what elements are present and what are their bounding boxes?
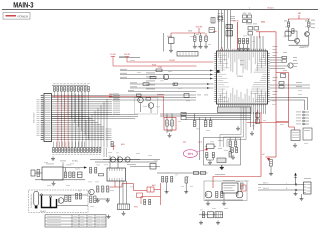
arrow labels (197, 94, 201, 97)
svg-text:D3.3V: D3.3V (233, 20, 239, 23)
wire arrows mid-band (207, 70, 213, 90)
IC U301 inner labels (45, 95, 51, 140)
label (60, 160, 66, 163)
bus fanout staircase (86, 99, 107, 148)
svg-text:TO MAIN: TO MAIN (300, 46, 309, 49)
ferrite bead FB602 (181, 116, 186, 119)
IC U601 left pin labels (218, 53, 230, 102)
caps outside right (90, 196, 111, 203)
ground (53, 181, 55, 183)
red branch (276, 73, 289, 122)
caps row mid (97, 186, 109, 192)
bus box below IC (218, 107, 251, 113)
red mark (261, 21, 265, 24)
svg-text:P5V: P5V (134, 206, 138, 209)
ground (123, 211, 125, 213)
red power horizontal (52, 95, 164, 97)
electrolytic cap CE802 (236, 191, 243, 198)
wires right pins to parts (270, 57, 282, 59)
test point TP1 (183, 149, 207, 158)
zener D401 (78, 172, 83, 178)
IC U601 top pins (219, 49, 266, 51)
caps left of U501 (90, 168, 97, 174)
red wire (111, 57, 115, 67)
IC U301 left pin labels (37, 99, 40, 135)
red rail 2 (113, 65, 197, 67)
resistor R901 (284, 19, 290, 27)
capacitor C801 (270, 160, 273, 172)
svg-text:MAIN-3: MAIN-3 (13, 0, 33, 9)
red long vertical right (275, 32, 277, 157)
component labels (218, 139, 223, 142)
wire +B rail horizontal (288, 18, 310, 20)
resistor R410 (156, 69, 162, 72)
power wire red (237, 22, 239, 50)
svg-text:RXD: RXD (152, 64, 157, 67)
resistor R903 (285, 30, 291, 36)
ground (221, 165, 223, 167)
component cluster K1 (248, 27, 259, 36)
wire to audio path (130, 166, 160, 168)
ground (223, 201, 225, 203)
wire arrow top (63, 166, 87, 168)
svg-text:RL401: RL401 (40, 210, 47, 213)
resistor array RA912 (226, 31, 233, 37)
black vertical grid wires (72, 93, 83, 148)
labels above array (53, 82, 55, 85)
resistor array top row (52, 85, 89, 91)
cap C403 (73, 172, 75, 178)
wires from array down (103, 148, 105, 157)
labels (296, 81, 302, 84)
capacitor C810 (185, 177, 188, 190)
connector CN701 pins (296, 111, 309, 125)
bottom rail (35, 179, 85, 181)
transistor Q401 (58, 198, 64, 204)
wire extensions (52, 113, 139, 115)
electrolytic cap CE801 (205, 191, 212, 198)
resistor R301 (137, 94, 142, 97)
red part (241, 185, 246, 191)
red jumper (256, 32, 262, 38)
wires IC bottom to box (219, 106, 249, 108)
red power arrow (266, 157, 277, 161)
wire (288, 27, 290, 41)
red wire (125, 57, 129, 63)
wire OUT L (258, 182, 304, 186)
svg-text:IC601: IC601 (237, 75, 244, 78)
bus wires upper (160, 113, 185, 115)
resistor pair 2 (243, 20, 252, 23)
tick (62, 163, 64, 168)
IC U601 left pins (214, 53, 216, 102)
capacitor C661 (206, 153, 208, 161)
svg-text:TXD: TXD (158, 66, 163, 69)
extra signal wires (128, 90, 196, 92)
svg-text:TP1: TP1 (187, 152, 193, 156)
connector CN801 (304, 182, 312, 194)
svg-text:x: x (249, 7, 250, 10)
ground (185, 190, 187, 192)
label box (209, 28, 215, 33)
inductor L801 (194, 171, 199, 174)
capacitor C643 (209, 121, 212, 127)
ground (270, 172, 272, 174)
svg-text:+B: +B (297, 12, 301, 15)
cap C401 (64, 168, 66, 178)
wires (270, 65, 288, 67)
connector CN801 label (304, 177, 311, 180)
power rail to right red (260, 31, 277, 33)
wire (170, 44, 172, 49)
wire (207, 159, 214, 161)
legend box POWER (3, 13, 30, 20)
transistor row Q512 (125, 157, 130, 162)
ground (170, 48, 172, 50)
capacitor C662 (212, 153, 214, 161)
resistor R412 (143, 83, 149, 86)
component mid (184, 94, 189, 98)
component stack right (256, 113, 260, 124)
resistor R904 (292, 29, 297, 38)
parts table (45, 215, 106, 227)
labels far right (293, 56, 297, 59)
transistor Q501 (89, 189, 94, 194)
IC U601 pin1 mark (217, 70, 220, 73)
wire to main (296, 44, 298, 46)
caps in crystal box right (231, 148, 238, 153)
ground right of table (107, 215, 111, 219)
label cluster (188, 30, 192, 33)
signal wires 3 (112, 94, 196, 96)
diode D410 (173, 83, 178, 85)
svg-text:NJU3711V: NJU3711V (33, 112, 36, 123)
transistor Q302 (148, 103, 154, 109)
ground (169, 133, 171, 135)
capacitor C804 (221, 192, 223, 198)
red path audio power (110, 181, 147, 191)
wire bundle from IC right (52, 96, 113, 140)
wire (308, 37, 310, 45)
svg-text:+B ACC: +B ACC (267, 7, 275, 10)
wires (166, 126, 168, 133)
caps (65, 196, 71, 202)
resistor pair top (243, 13, 252, 18)
IC U601 bottom pins (219, 104, 266, 107)
wires from left (157, 172, 208, 174)
power rail (171, 32, 205, 34)
resistor array RA911 (226, 25, 233, 29)
capacitor row C930 (238, 39, 242, 51)
pin labels (311, 19, 315, 22)
capacitor C923 (204, 33, 208, 48)
regulator IC block (167, 36, 174, 44)
red rail 1 (127, 61, 214, 63)
ground (209, 160, 211, 162)
ground (295, 192, 297, 194)
connector hatch bottom (118, 204, 130, 210)
svg-text:B5V: B5V (152, 184, 156, 187)
svg-text:POWER RELAY: POWER RELAY (30, 193, 33, 208)
resistor R712 (279, 82, 284, 85)
wire (170, 33, 172, 38)
wire (163, 33, 165, 52)
more right labels (283, 51, 287, 54)
IC U301 body (44, 94, 52, 142)
connector hatch (215, 212, 223, 218)
resistor R713 (279, 86, 284, 89)
IC U601 top pin labels (219, 52, 266, 75)
resistor R711 (282, 60, 287, 62)
wires long right (270, 84, 310, 86)
IC U601 right pin labels (251, 53, 266, 102)
svg-text:POWER: POWER (18, 14, 29, 18)
wires below QFP going down left (241, 107, 246, 140)
red highlight box (164, 118, 176, 131)
label above (215, 173, 225, 176)
svg-text:L: L (286, 182, 287, 185)
ground (200, 221, 202, 223)
wires in relay box (39, 195, 88, 206)
transistor Q301 (138, 97, 144, 103)
wires down (251, 112, 257, 130)
transistor Q902 (305, 31, 310, 36)
wire (199, 214, 223, 216)
net labels at wire ends (106, 95, 121, 140)
signal wires with labels (120, 69, 214, 71)
ground top (221, 166, 223, 168)
red lower loop (141, 197, 161, 205)
red wire down to filter box (163, 96, 165, 117)
wire OUT R (258, 187, 304, 191)
ground (301, 197, 303, 199)
red tick (183, 141, 186, 143)
resistor R411 (150, 76, 156, 79)
resistors (76, 194, 82, 200)
relay coil RL401 (34, 192, 39, 209)
IC U601 bottom pin labels (219, 88, 266, 103)
top border rule (2, 9, 318, 11)
transistor Q410 (163, 74, 168, 79)
ground (251, 131, 253, 133)
vertical rails (120, 181, 127, 204)
power wires red vertical (57, 94, 59, 148)
ground (294, 143, 296, 145)
ground (166, 190, 168, 192)
IC U801 audio amp (222, 183, 238, 193)
wires (229, 138, 231, 142)
relay contact thick trace (41, 194, 57, 208)
connector left (31, 170, 42, 176)
svg-text:OUT R: OUT R (263, 187, 269, 190)
wire (301, 194, 303, 197)
label smudges (246, 23, 252, 26)
ground (232, 155, 234, 157)
component box (208, 212, 214, 218)
capacitor C651 (166, 114, 168, 127)
sub-circuit box (204, 138, 241, 166)
labels below array (52, 153, 54, 156)
capacitor C642 (204, 121, 207, 127)
wires to connector (270, 98, 308, 111)
grounds (97, 198, 99, 200)
scattered value labels (44, 27, 309, 211)
resistor R501 (99, 174, 104, 176)
svg-text:D3.3V: D3.3V (196, 25, 203, 28)
cap cluster left (162, 177, 173, 190)
component (37, 170, 40, 177)
wires from top edge (218, 10, 220, 49)
inductor L802 (201, 171, 206, 174)
svg-text:OUT L: OUT L (263, 182, 269, 185)
ground (52, 157, 54, 159)
red label on rail (157, 93, 164, 96)
bus lines left (182, 114, 251, 120)
label IC U501 (127, 163, 136, 166)
svg-text:DVDD: DVDD (169, 59, 175, 62)
nested bend wires (220, 135, 246, 148)
svg-text:B5V: B5V (121, 143, 125, 146)
labels right of QFP (273, 45, 278, 48)
ground (217, 221, 219, 223)
svg-text:IC301: IC301 (72, 160, 79, 163)
resistor R662 (235, 141, 237, 147)
transistor row Q511 (117, 157, 122, 162)
ground below bus (237, 126, 239, 128)
resistor R710 (282, 56, 287, 58)
red feed (276, 122, 295, 131)
resistor R801 (236, 181, 243, 189)
svg-text:D+5V: D+5V (110, 53, 116, 56)
component small box (150, 164, 156, 170)
red diode D501 (147, 187, 154, 192)
transistor Q901 (295, 38, 300, 43)
capacitor C652 (171, 114, 173, 127)
red wire right (154, 183, 161, 205)
red wire below QFP (257, 110, 259, 123)
wire +B vertical (298, 15, 300, 19)
bottom rail (205, 199, 243, 201)
IC U501 body (107, 168, 126, 181)
red horizontal lower (247, 122, 289, 124)
label AMP above (223, 179, 235, 182)
resistor R302 (146, 98, 151, 101)
wire (308, 27, 310, 31)
wire (223, 193, 225, 200)
audio block box (204, 181, 247, 201)
xtal parts (281, 74, 286, 78)
relay sub-circuit box (29, 190, 89, 213)
capacitor C641 (193, 121, 196, 127)
capacitor C663 (229, 152, 231, 158)
wires IC bottom right going down (251, 107, 265, 114)
transistor row Q510 (110, 157, 115, 162)
small parts top (211, 17, 223, 24)
red tick top (221, 47, 223, 51)
red mark (213, 31, 217, 33)
label box above IC (177, 52, 198, 57)
net labels right (230, 15, 235, 18)
net label rows (146, 72, 155, 75)
IC U701 (291, 130, 300, 141)
labels right (66, 164, 71, 167)
wire reset (119, 56, 140, 58)
wires array down staircase (54, 91, 88, 139)
arrow symbol up (294, 173, 297, 185)
wire row (103, 159, 140, 161)
red end labels (109, 93, 113, 96)
capacitor C803 (216, 192, 218, 198)
wires (140, 103, 142, 112)
crystal X601 (205, 144, 216, 149)
red vertical to audio (260, 112, 262, 177)
wire (289, 40, 295, 42)
capacitor C922 (199, 33, 203, 48)
top wires (90, 156, 160, 169)
IC U401 box (42, 164, 63, 181)
capacitor C921 (193, 33, 197, 48)
red tick (112, 146, 116, 150)
IC U301 left pins (41, 95, 45, 140)
ground (207, 201, 209, 203)
IC U601 microcontroller body (217, 51, 268, 104)
cap C402 (69, 172, 71, 178)
audio amp red rail (213, 177, 261, 189)
capacitor C850 (202, 212, 205, 218)
black parts near red (144, 200, 151, 205)
net labels above (218, 12, 221, 15)
wire stubs IC bottom to array (54, 142, 85, 148)
resistor array bottom row (53, 148, 101, 153)
connector hatch bottom (217, 158, 226, 163)
resistor R661 (229, 141, 231, 147)
IC U601 right pins (268, 53, 270, 102)
ferrite bead FB601 (181, 112, 186, 115)
transistor Q710 (288, 63, 293, 68)
part small (111, 142, 113, 147)
wires down from bus (199, 118, 201, 161)
red resistor (137, 193, 143, 198)
resistor R902 (305, 19, 310, 27)
part right (303, 128, 312, 140)
wires down to IC (250, 36, 252, 50)
transistor cluster outline (135, 98, 158, 115)
signal wires 2 (130, 82, 214, 84)
svg-text:D3.3V: D3.3V (124, 53, 131, 56)
